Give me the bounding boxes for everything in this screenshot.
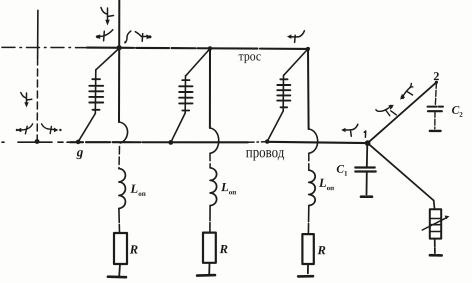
svg-text:Lоп: Lоп <box>318 176 334 192</box>
svg-text:Lоп: Lоп <box>220 180 236 196</box>
capacitor C1 plates <box>355 166 374 168</box>
node 1 <box>365 140 371 146</box>
insulator string S1 column <box>94 70 97 114</box>
label: node 1 <box>364 131 366 137</box>
current arrow: down-left wave on line 1-2 <box>400 83 413 99</box>
svg-text:трос: трос <box>239 48 262 63</box>
ground T2 <box>197 274 215 277</box>
insulator string S3 bottom diagonal <box>267 111 283 141</box>
node: S3 on провод <box>265 139 269 143</box>
svg-text:R: R <box>219 242 228 256</box>
svg-text:g: g <box>76 144 84 159</box>
inductor L_оп T1 <box>119 169 126 209</box>
wire: T3 coil to resistor <box>307 206 309 235</box>
svg-text:C1: C1 <box>336 164 348 178</box>
svg-text:R: R <box>129 243 138 257</box>
wire: arrester to ground <box>434 239 436 254</box>
svg-text:C2: C2 <box>452 105 464 119</box>
resistor R T2 <box>203 233 216 263</box>
current arrow: left along трос at T1 <box>95 30 112 41</box>
wire: T1 coil to resistor <box>118 209 121 233</box>
node 2 <box>435 81 438 84</box>
resistor R T1 <box>114 233 127 264</box>
insulator string S1 bottom diagonal <box>78 114 95 142</box>
wire: shield wire (трос) dashed left segment <box>2 46 87 48</box>
current arrow: down along tower T0 <box>21 93 32 108</box>
current arrow: left along трос at T3 <box>287 31 304 43</box>
wire: phase conductor (провод) short dashed segment <box>248 141 266 144</box>
wire: phase conductor (провод) main segment <box>70 141 248 143</box>
insulator string S2 top diagonal <box>186 50 209 76</box>
wire: T2 coil to resistor <box>209 206 211 233</box>
wire: phase conductor (провод) segment to node 1 <box>266 142 368 143</box>
node: T2 on трос <box>208 46 212 50</box>
insulator string S3 bars <box>280 78 287 80</box>
wire: C1 to ground <box>366 172 368 195</box>
tower T0 (left, dashed body) <box>37 10 39 58</box>
wire: arrester top stem <box>433 201 436 210</box>
current arrow: left on провод at T0 <box>16 124 33 134</box>
wire: T1 below провод <box>118 147 121 169</box>
capacitor C2 plates <box>428 106 444 108</box>
current arrow: right on провод at T0 <box>42 124 62 134</box>
wire: T3 below провод <box>308 153 310 170</box>
wire: node1 to node2 line <box>368 82 437 143</box>
resistor R T3 <box>302 234 313 264</box>
insulator string S3 column <box>282 75 284 111</box>
arrester FV body <box>430 209 441 238</box>
node: tower T0 on провод <box>35 139 40 144</box>
tower T3 trunk <box>307 49 310 129</box>
wire: T1 resistor to ground <box>118 264 121 276</box>
wire: node1 to arrester <box>368 143 434 200</box>
wire: T2 below провод <box>209 153 211 168</box>
wire: phase conductor (провод) dashed left segment <box>2 141 70 143</box>
insulator string S1 bars <box>92 78 100 80</box>
wire: T2 resistor to ground <box>208 263 210 275</box>
wire hop: T1 over провод <box>119 122 128 143</box>
node: S1 on провод <box>76 140 81 145</box>
tower T1 trunk <box>118 48 120 122</box>
wire: T3 resistor to ground <box>307 264 309 273</box>
svg-text:2: 2 <box>433 69 439 83</box>
insulator string S2 column <box>184 76 186 113</box>
wire: C2 to ground <box>434 111 436 129</box>
ground arrester <box>430 254 442 257</box>
current arrow: right along трос at T1 <box>124 31 152 43</box>
inductor L_оп T2 <box>210 168 217 206</box>
corner: трос to tower T3 <box>306 47 310 51</box>
wire: node1 to C1 <box>366 143 369 167</box>
insulator string S2 bottom diagonal <box>171 113 185 142</box>
ground C2 <box>430 130 441 132</box>
insulator string S1 top diagonal <box>96 50 118 70</box>
svg-text:провод: провод <box>246 144 285 161</box>
svg-text:Lоп: Lоп <box>130 182 146 198</box>
current arrow: up-right wave on line 1-2 <box>376 105 397 116</box>
tower T2 trunk <box>209 48 211 128</box>
wire: shield wire (трос) main segment to corner <box>87 48 308 49</box>
inductor L_оп T3 <box>309 170 315 205</box>
wire hop: T2 over провод <box>210 128 219 153</box>
wire: node2 to C2 <box>435 82 436 106</box>
insulator string S3 top diagonal <box>284 51 307 76</box>
node: S2 on провод <box>168 140 173 145</box>
tower T1 body above трос <box>118 0 120 48</box>
node: T1 on трос <box>117 45 122 50</box>
svg-text:R: R <box>317 243 326 257</box>
arrester arrow <box>422 218 447 230</box>
arrester inner bars <box>430 218 441 220</box>
current arrow: down into T1 top <box>101 8 114 26</box>
ground T3 <box>298 275 313 278</box>
wire hop: T3 over провод <box>309 129 318 153</box>
ground C1 <box>361 195 372 198</box>
current arrow: left on провод at node 1 <box>341 124 358 136</box>
ground T1 <box>108 275 126 278</box>
insulator string S2 bars <box>182 79 189 81</box>
